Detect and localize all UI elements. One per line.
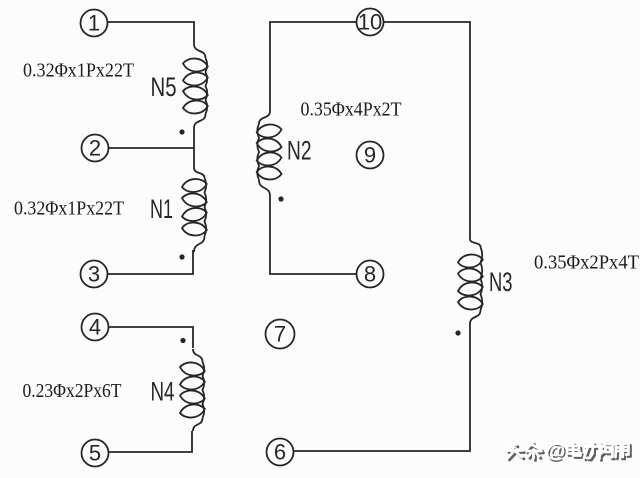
svg-text:2: 2 xyxy=(89,136,101,161)
polarity dot N2 finish xyxy=(278,196,283,201)
svg-text:0.35Φx4Px2T: 0.35Φx4Px2T xyxy=(301,100,402,121)
terminal node 6 xyxy=(267,439,294,466)
svg-text:N1: N1 xyxy=(150,194,173,224)
wire N5 bottom to N1 top xyxy=(193,128,195,168)
wire terminal10 right to N3 branch xyxy=(384,22,471,239)
polarity dot N4 start xyxy=(180,338,185,343)
wire N2 bottom to terminal8 xyxy=(270,196,357,274)
wire terminal10 left to N2 branch xyxy=(270,22,357,111)
svg-text:0.32Φx1Px22T: 0.32Φx1Px22T xyxy=(14,199,124,220)
svg-text:6: 6 xyxy=(274,440,286,465)
winding N5 xyxy=(183,44,208,128)
terminal node 8 xyxy=(357,261,384,288)
winding N2 xyxy=(257,111,282,196)
svg-text:7: 7 xyxy=(274,322,286,347)
terminal node 3 xyxy=(81,261,108,288)
svg-text:0.23Φx2Px6T: 0.23Φx2Px6T xyxy=(23,381,122,402)
svg-text:0.35Φx2Px4T: 0.35Φx2Px4T xyxy=(534,253,639,274)
svg-text:N5: N5 xyxy=(151,72,177,102)
svg-text:@: @ xyxy=(545,439,565,462)
svg-text:N2: N2 xyxy=(287,136,312,166)
wire N1 bottom to terminal3 xyxy=(108,250,194,274)
svg-text:5: 5 xyxy=(89,441,101,466)
svg-text:0.32Φx1Px22T: 0.32Φx1Px22T xyxy=(23,61,134,82)
wire N4 bottom to terminal5 xyxy=(109,431,193,452)
terminal node 5 xyxy=(82,440,109,467)
svg-text:4: 4 xyxy=(89,315,101,340)
wire terminal4 to N4 xyxy=(109,327,194,348)
svg-text:8: 8 xyxy=(364,262,376,287)
terminal node 10 xyxy=(357,9,384,36)
wire terminal2 tap xyxy=(109,147,195,149)
terminal node 9 xyxy=(357,142,384,169)
svg-text:1: 1 xyxy=(88,11,100,36)
winding N3 xyxy=(458,239,483,324)
svg-text:3: 3 xyxy=(88,262,100,287)
wire N3 bottom to terminal6 xyxy=(294,324,471,451)
polarity dot N5 finish xyxy=(179,129,184,134)
svg-text:9: 9 xyxy=(364,143,376,168)
terminal node 2 xyxy=(82,135,109,162)
polarity dot N3 finish xyxy=(455,330,460,335)
terminal node 4 xyxy=(82,314,109,341)
terminal node 1 xyxy=(81,10,108,37)
winding N4 xyxy=(180,349,205,431)
winding N1 xyxy=(182,168,207,252)
wire terminal1 to N5 xyxy=(108,22,195,44)
polarity dot N1 finish xyxy=(179,254,184,259)
watermark toutiao @dianli-apeng xyxy=(507,439,631,464)
terminal node 7 xyxy=(266,320,295,349)
svg-text:N3: N3 xyxy=(489,267,513,297)
svg-text:N4: N4 xyxy=(151,377,175,407)
svg-text:10: 10 xyxy=(358,10,382,35)
